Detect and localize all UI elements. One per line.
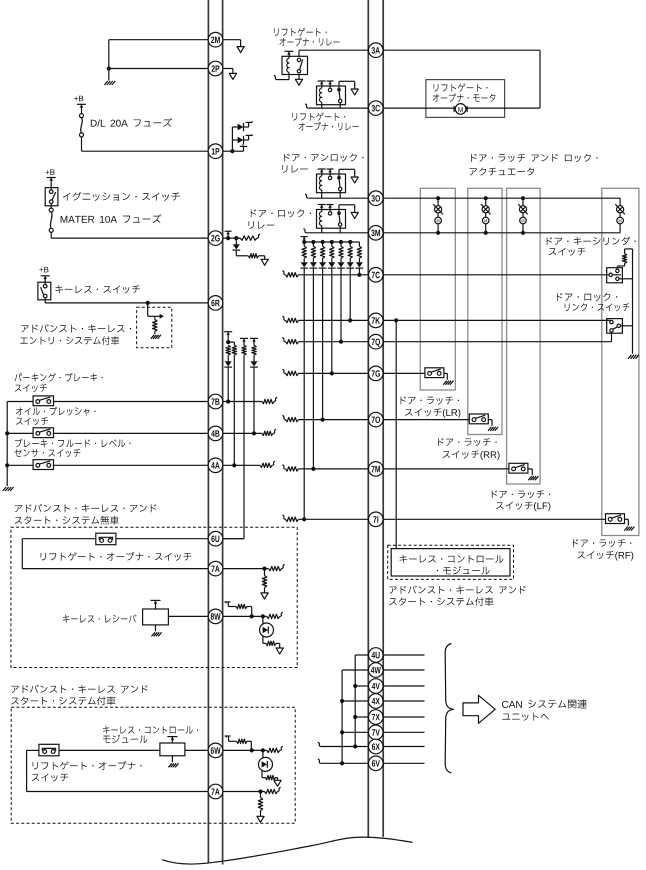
resistor+diode branch to 7C bbox=[358, 242, 360, 246]
wire branch C to 4B bbox=[253, 367, 255, 433]
label liftgate opener switch (6U) bbox=[41, 552, 192, 561]
wire LED to resistor bbox=[262, 636, 264, 643]
resistor (4B row) bbox=[262, 431, 273, 435]
label liftgate motor line2 bbox=[433, 93, 496, 101]
wire branch A to 7B bbox=[227, 367, 229, 401]
wire 4X to line B bbox=[342, 700, 368, 702]
resistor (branch B) bbox=[242, 345, 246, 355]
label CAN line2 bbox=[502, 713, 549, 721]
resistor (7K row left) bbox=[282, 316, 285, 320]
oil pressure switch SW4 bbox=[33, 428, 53, 438]
terminal (branch C) bbox=[250, 337, 258, 339]
fuse F1 D/L 20A bbox=[80, 114, 84, 118]
wire +B to fuse bbox=[81, 104, 83, 113]
connector 2G (left bus y=238) bbox=[208, 231, 223, 246]
label door unlock relay line2 bbox=[282, 165, 308, 173]
wire 1P stub up bbox=[223, 150, 233, 152]
wire fuse to 2G bbox=[50, 232, 52, 238]
connector 7O (right bus) bbox=[369, 412, 384, 427]
ignition switch SW1 bbox=[45, 188, 58, 206]
resistor (2G row) bbox=[240, 236, 257, 240]
wire K1 coil to hook bbox=[288, 75, 290, 80]
relay K2 liftgate opener bbox=[317, 86, 346, 105]
wire diode to resistor bbox=[235, 251, 237, 256]
wire K1 switch to 3A bbox=[298, 50, 300, 56]
wire 7M row to bus bbox=[299, 468, 369, 470]
wire +B to keyless switch bbox=[44, 276, 46, 286]
label door key cylinder line2 bbox=[549, 248, 586, 256]
node 8W-a bbox=[250, 614, 254, 618]
node cascade 7M bbox=[311, 240, 315, 244]
wire 4V row right bbox=[383, 685, 424, 687]
resistor+diode branch to 7Q bbox=[340, 242, 342, 246]
node 7A branch bbox=[262, 567, 266, 571]
label door unlock relay line1 bbox=[284, 154, 363, 162]
ground (receiver) bbox=[155, 625, 157, 631]
resistor (7O row left) bbox=[282, 416, 285, 420]
arrow out (2G branch) bbox=[261, 259, 268, 265]
wire K4 bottom rail to 3M bbox=[321, 228, 323, 233]
wire parking brake switch to 7B bbox=[54, 401, 209, 403]
wire 4B row right bbox=[223, 432, 262, 434]
node rail-4B bbox=[5, 431, 9, 435]
label advanced keyless entry line2 bbox=[20, 336, 119, 345]
LED D6 (8W) bbox=[262, 616, 264, 623]
connector 6R (left bus y=303) bbox=[208, 296, 223, 311]
wire 2P right stub with arrow bbox=[223, 68, 233, 70]
connector 4A (left bus y=465) bbox=[208, 458, 223, 473]
connector 4U (right bus) bbox=[369, 648, 384, 663]
resistor+diode branch to 7M bbox=[312, 242, 314, 246]
label latch LR line1 bbox=[401, 396, 459, 404]
node 7X-A bbox=[353, 715, 357, 719]
node 4B-branchC bbox=[252, 431, 256, 435]
cascade top rail bbox=[304, 241, 359, 243]
resistor (7A branch down) bbox=[264, 569, 266, 576]
connector 3O (right bus) bbox=[369, 191, 384, 206]
label actuator line2 bbox=[469, 168, 534, 176]
ground (latch LF) bbox=[528, 476, 531, 480]
node 7B-branchA bbox=[226, 399, 230, 403]
wire branch B to 6U bbox=[243, 355, 245, 539]
resistor (8W row) bbox=[267, 614, 280, 618]
wire LF row to latch switch bbox=[383, 468, 509, 470]
wire RF row to latch switch bbox=[383, 518, 605, 520]
actuator box LR bbox=[420, 188, 455, 390]
diode D1 (1P) bbox=[232, 126, 237, 128]
power +B (D/L fuse) bbox=[74, 96, 83, 102]
connector 6X (right bus) bbox=[369, 739, 384, 754]
ground rail (box RF) bbox=[632, 249, 634, 354]
wire 7K row to bus bbox=[299, 319, 369, 321]
wire key cylinder contact to rail bbox=[619, 278, 632, 280]
terminal stub (1P) bbox=[232, 150, 243, 152]
wire 7B row right bbox=[223, 401, 262, 403]
node 4V-A bbox=[353, 684, 357, 688]
connector 7K (right bus) bbox=[369, 313, 384, 328]
wire oil pressure switch to 4B bbox=[54, 432, 209, 434]
label liftgate opener switch (bottom) line1 bbox=[33, 761, 142, 769]
node 8W-b bbox=[261, 614, 265, 618]
resistor+diode branch to 7K bbox=[349, 242, 351, 246]
resistor (key cylinder) bbox=[616, 266, 618, 269]
wire oil pressure switch to rail bbox=[7, 432, 33, 434]
resistor (7C row left) bbox=[282, 271, 285, 275]
wire switch to 7A2 bbox=[27, 749, 39, 751]
diode D3 (2G) bbox=[233, 244, 240, 249]
label latch RF line1 bbox=[573, 539, 631, 547]
wire K3 bottom rail to 3O bbox=[321, 193, 323, 199]
wire 6U right to branch B bbox=[223, 538, 244, 540]
wire 4A row right bbox=[223, 464, 260, 466]
wire 7A2 row right bbox=[223, 791, 265, 793]
connector 3A (right bus) bbox=[369, 43, 384, 58]
ground (module U3) bbox=[171, 756, 173, 763]
wire resistor to arrow (8W) bbox=[276, 642, 280, 644]
ground rail (left column) bbox=[6, 402, 8, 487]
terminal (6W branch) bbox=[225, 735, 231, 737]
label ignition switch bbox=[63, 192, 180, 201]
wire K2 bottom rail to 3C bbox=[321, 105, 323, 108]
label parking brake switch line2 bbox=[15, 384, 47, 392]
connector 6U (left bus y=539) bbox=[208, 531, 223, 546]
ground (2M/2P) bbox=[104, 81, 107, 85]
node 7V-B bbox=[340, 730, 344, 734]
label keyless module bottom line2 bbox=[103, 735, 148, 743]
keyless receiver U2 bbox=[143, 609, 169, 625]
wire K2 contact out arrow bbox=[338, 81, 340, 89]
connector 4X (right bus) bbox=[369, 694, 384, 709]
connector 7V (right bus) bbox=[369, 725, 384, 740]
label keyless module mid line2 bbox=[437, 566, 490, 574]
wire resistor to arrow (6W) bbox=[276, 777, 278, 779]
motor M3 (actuator RR) bbox=[484, 196, 488, 200]
wire 7O row to bus bbox=[299, 419, 369, 421]
ground (latch LR) bbox=[443, 381, 446, 385]
label liftgate motor line1 bbox=[434, 83, 488, 91]
connector 7A (left bus y=569) bbox=[208, 561, 223, 576]
liftgate opener switch SW8 bbox=[96, 533, 116, 545]
wire 7K row right bbox=[383, 319, 610, 321]
motor M1 (liftgate opener) bbox=[455, 104, 466, 115]
wire 6X row left bbox=[321, 746, 368, 748]
arrow out (7A2 branch) bbox=[257, 816, 264, 822]
connector 7B (left bus y=402) bbox=[208, 394, 223, 409]
label latch LF line1 bbox=[492, 490, 550, 498]
resistor (6W branch up) bbox=[237, 739, 247, 743]
wire +B to ignition switch bbox=[50, 178, 52, 190]
door latch switch (RF) bbox=[606, 514, 625, 524]
label CAN line1 bbox=[502, 699, 587, 708]
resistor (4A row) bbox=[260, 463, 272, 467]
dashed box (with adv keyless) bbox=[11, 707, 295, 823]
wire 2G diode branch bbox=[235, 238, 237, 244]
antenna (module U3) bbox=[171, 737, 173, 743]
wire 7X to line A bbox=[355, 716, 368, 718]
wire 2M right stub with arrow bbox=[223, 39, 241, 41]
keyless control module U1 bbox=[391, 549, 510, 576]
resistor+diode branch to 7O bbox=[322, 242, 324, 246]
CAN line B bbox=[342, 669, 368, 671]
label D/L 20A fuse bbox=[91, 118, 172, 127]
arrow to CAN units bbox=[463, 695, 495, 723]
wire 4X row right bbox=[383, 700, 424, 702]
resistor (6W LED branch) bbox=[266, 775, 276, 779]
wire 7V row right bbox=[383, 731, 424, 733]
wire 2G right bbox=[223, 237, 240, 239]
wire 3M row bbox=[383, 232, 620, 234]
wire junction to ground bbox=[108, 69, 110, 81]
wire 3A row bbox=[383, 49, 540, 51]
connector 7C (right bus) bbox=[369, 268, 384, 283]
node 7I branch bbox=[302, 517, 306, 521]
node 1P junction bbox=[230, 149, 234, 153]
wire into dashed box with arrow bbox=[147, 303, 149, 316]
label door lock link switch line1 bbox=[557, 293, 617, 301]
connector 7M (right bus) bbox=[369, 462, 384, 477]
wire keyless switch to 6R bbox=[44, 298, 46, 303]
node 6X-A bbox=[353, 744, 357, 748]
label liftgate opener relay1 line1 bbox=[274, 28, 327, 36]
wire brake fluid switch to rail bbox=[7, 464, 33, 466]
ground (latch RF) bbox=[624, 527, 627, 531]
connector 7G (right bus) bbox=[369, 366, 384, 381]
label liftgate opener switch (bottom) line2 bbox=[32, 774, 69, 782]
wire 7C row right bbox=[383, 274, 609, 276]
node 4X-B bbox=[340, 699, 344, 703]
resistor (7A2 row) bbox=[265, 789, 278, 793]
wire 4U row right bbox=[383, 654, 424, 656]
wire 6W row right bbox=[223, 749, 267, 751]
connector 3C (right bus) bbox=[369, 101, 384, 116]
door latch switch (LR) bbox=[425, 368, 444, 378]
right bus (vertical double line) bbox=[367, 0, 369, 838]
wire 3C row to motor bbox=[383, 107, 455, 109]
connector 8W (left bus y=616) bbox=[208, 609, 223, 624]
relay K3 door unlock bbox=[317, 174, 346, 193]
arrow out (7A branch) bbox=[261, 593, 268, 599]
node 2G-a bbox=[226, 236, 230, 240]
node 6R branch bbox=[146, 301, 150, 305]
wire fuse to 1P bbox=[81, 137, 83, 151]
label advanced keyless entry line1 bbox=[21, 324, 131, 332]
dashed box (keyless module mid) bbox=[388, 545, 514, 579]
liftgate opener motor box bbox=[426, 80, 505, 118]
dashed box (advanced keyless entry) bbox=[137, 307, 172, 348]
connector 7A (left bus y=792) bbox=[208, 784, 223, 799]
cut wave bbox=[162, 837, 412, 864]
wire resistor to 8W row bbox=[247, 606, 252, 608]
label with adv keyless line2 bbox=[11, 696, 115, 705]
label adv keyless and start line1 bbox=[389, 585, 525, 593]
relay K4 door lock bbox=[317, 210, 346, 229]
label without adv keyless line1 bbox=[15, 504, 157, 512]
resistor+diode branch to 7G bbox=[331, 242, 333, 246]
label liftgate opener relay2 line2 bbox=[299, 122, 359, 130]
wire 6U loop left+bottom bbox=[21, 539, 23, 569]
ground (left column) bbox=[3, 487, 6, 491]
wire 8W row right bbox=[223, 615, 267, 617]
connector 2P (left bus y=68) bbox=[208, 61, 223, 76]
wire 2M to junction bbox=[109, 39, 223, 41]
label door lock link switch line2 bbox=[565, 303, 630, 311]
node 6W-a bbox=[250, 748, 254, 752]
wire 3O row bbox=[383, 197, 620, 199]
terminal (branch A) bbox=[224, 331, 232, 333]
node 7G branch bbox=[330, 371, 334, 375]
connector 4W (right bus) bbox=[369, 663, 384, 678]
actuator box RR bbox=[468, 188, 502, 434]
label latch LR line2 bbox=[405, 408, 460, 417]
terminal (cascade feed) bbox=[301, 236, 308, 238]
node 7K branch bbox=[348, 318, 352, 322]
connector 7X (right bus) bbox=[369, 710, 384, 725]
node cascade 7I bbox=[302, 240, 306, 244]
wire K3 contact out arrow bbox=[338, 169, 340, 177]
connector 4V (right bus) bbox=[369, 679, 384, 694]
motor M5 (actuator RF) bbox=[619, 198, 621, 206]
wire 4V to line A bbox=[355, 685, 368, 687]
node cascade 7G bbox=[330, 240, 334, 244]
connector 2M (left bus y=40) bbox=[208, 32, 223, 47]
wire resistor to 6W row bbox=[247, 740, 251, 742]
wire brake fluid switch to 4A bbox=[54, 464, 209, 466]
node 2G-b bbox=[234, 236, 238, 240]
door key cylinder switch SW6 bbox=[607, 268, 623, 283]
label keyless module mid line1 bbox=[400, 555, 504, 563]
label parking brake switch line1 bbox=[14, 373, 102, 382]
LED D7 (6W) bbox=[262, 750, 264, 758]
wire K4 contact out arrow bbox=[338, 205, 340, 213]
actuator box RF bbox=[602, 188, 639, 535]
resistor (7G row left) bbox=[282, 369, 285, 373]
power +B (keyless) bbox=[39, 267, 48, 273]
arrow out (8W branch) bbox=[276, 648, 283, 654]
wire K1 switch out arrow bbox=[298, 75, 300, 80]
resistor (6R branch) bbox=[154, 316, 156, 319]
wire module to 6W bbox=[185, 749, 209, 751]
node 6V-B bbox=[340, 761, 344, 765]
terminal stub (2G) bbox=[227, 231, 229, 238]
wire 7Q row to bus bbox=[299, 341, 369, 343]
wire parking brake switch to rail bbox=[7, 401, 33, 403]
actuator box LF bbox=[507, 188, 540, 484]
arrow out (6W branch) bbox=[274, 780, 281, 786]
resistor (branch A2) bbox=[232, 345, 236, 355]
node cascade 7O bbox=[321, 240, 325, 244]
door latch switch (LF) bbox=[509, 463, 528, 473]
motor M4 (actuator LF) bbox=[521, 196, 525, 200]
node cascade 7Q bbox=[339, 240, 343, 244]
door latch switch (RR) bbox=[469, 414, 488, 424]
label latch RF line2 bbox=[577, 551, 633, 560]
resistor (7M row left) bbox=[282, 465, 285, 469]
power +B (ignition) bbox=[45, 169, 54, 175]
ground (6R branch) bbox=[151, 335, 154, 339]
label MATER 10A fuse bbox=[61, 214, 162, 223]
door lock link switch SW7 bbox=[607, 319, 623, 334]
wire link switch to 7Q row bbox=[611, 332, 613, 342]
wire LR row to latch switch bbox=[383, 372, 425, 374]
label keyless switch bbox=[55, 285, 140, 293]
node 7C branch bbox=[357, 273, 361, 277]
wire receiver to 8W bbox=[168, 615, 208, 617]
brake fluid level sensor switch SW5 bbox=[33, 460, 53, 470]
wire 6X row right bbox=[383, 746, 424, 748]
liftgate opener switch SW9 bbox=[39, 744, 59, 756]
wire 6V row left bbox=[321, 762, 368, 764]
connector 6V (right bus) bbox=[369, 756, 384, 771]
node 6W-b bbox=[261, 748, 265, 752]
antenna (receiver) bbox=[155, 600, 157, 609]
wire branch A2 to 4A bbox=[233, 355, 235, 465]
wire 7K to keyless module bbox=[395, 320, 397, 548]
wire switch to module bbox=[59, 749, 160, 751]
wire 7G row to bus bbox=[299, 372, 369, 374]
label adv keyless and start line2 bbox=[389, 597, 493, 606]
wire 2P to junction bbox=[109, 68, 223, 70]
node 7A2 branch bbox=[258, 789, 262, 793]
resistor (branch C) bbox=[252, 345, 256, 355]
resistor (7I row left) bbox=[282, 515, 285, 519]
label latch RR line2 bbox=[443, 450, 500, 459]
brace (CAN group) bbox=[445, 644, 453, 774]
wire 6V row right bbox=[383, 762, 424, 764]
node rail-4A bbox=[5, 463, 9, 467]
label keyless receiver bbox=[63, 614, 137, 622]
label latch LF line2 bbox=[496, 502, 550, 511]
resistor (6W row) bbox=[267, 748, 280, 752]
node cascade 7K bbox=[348, 240, 352, 244]
wire 4W row right bbox=[383, 669, 424, 671]
resistor (8W branch up) bbox=[236, 604, 247, 608]
fuse F2 MATER 10A bbox=[50, 204, 52, 209]
wire 7X row right bbox=[383, 716, 424, 718]
node 7M branch bbox=[311, 467, 315, 471]
terminal (branch B) bbox=[240, 337, 248, 339]
node 7O branch bbox=[321, 418, 325, 422]
wire latch RR to ground bbox=[488, 419, 492, 421]
label liftgate opener relay1 line2 bbox=[280, 37, 340, 45]
label without adv keyless line2 bbox=[15, 516, 119, 525]
label liftgate opener relay2 line1 bbox=[292, 112, 345, 120]
resistor (7Q row left) bbox=[282, 338, 285, 342]
diode D5 (branch C) bbox=[253, 355, 255, 361]
resistor+diode branch to 7I bbox=[303, 242, 305, 246]
diode D4 (branch A) bbox=[227, 355, 229, 361]
motor M2 (actuator LR) bbox=[436, 196, 440, 200]
diode D2 (1P) bbox=[232, 139, 237, 141]
label oil pressure switch line1 bbox=[16, 407, 96, 416]
wire 7I row to bus bbox=[299, 518, 369, 520]
label brake fluid level line2 bbox=[15, 449, 81, 457]
left bus (vertical double line) bbox=[207, 0, 209, 864]
wire 6U loop top bbox=[116, 538, 208, 540]
resistor (7B row) bbox=[262, 399, 274, 403]
label latch RR line1 bbox=[438, 438, 496, 446]
ground (box RF rail) bbox=[628, 355, 631, 359]
label door key cylinder line1 bbox=[547, 237, 636, 246]
wire latch RF to ground bbox=[625, 518, 629, 520]
label door lock relay line1 bbox=[251, 209, 311, 217]
wire RR row to latch switch bbox=[383, 419, 469, 421]
label oil pressure switch line2 bbox=[16, 417, 48, 425]
label door lock relay line2 bbox=[248, 221, 274, 229]
resistor (branch A) bbox=[226, 345, 230, 355]
connector 4B (left bus y=433) bbox=[208, 426, 223, 441]
resistor (2G branch) bbox=[248, 254, 258, 258]
node 7K module branch bbox=[394, 318, 398, 322]
